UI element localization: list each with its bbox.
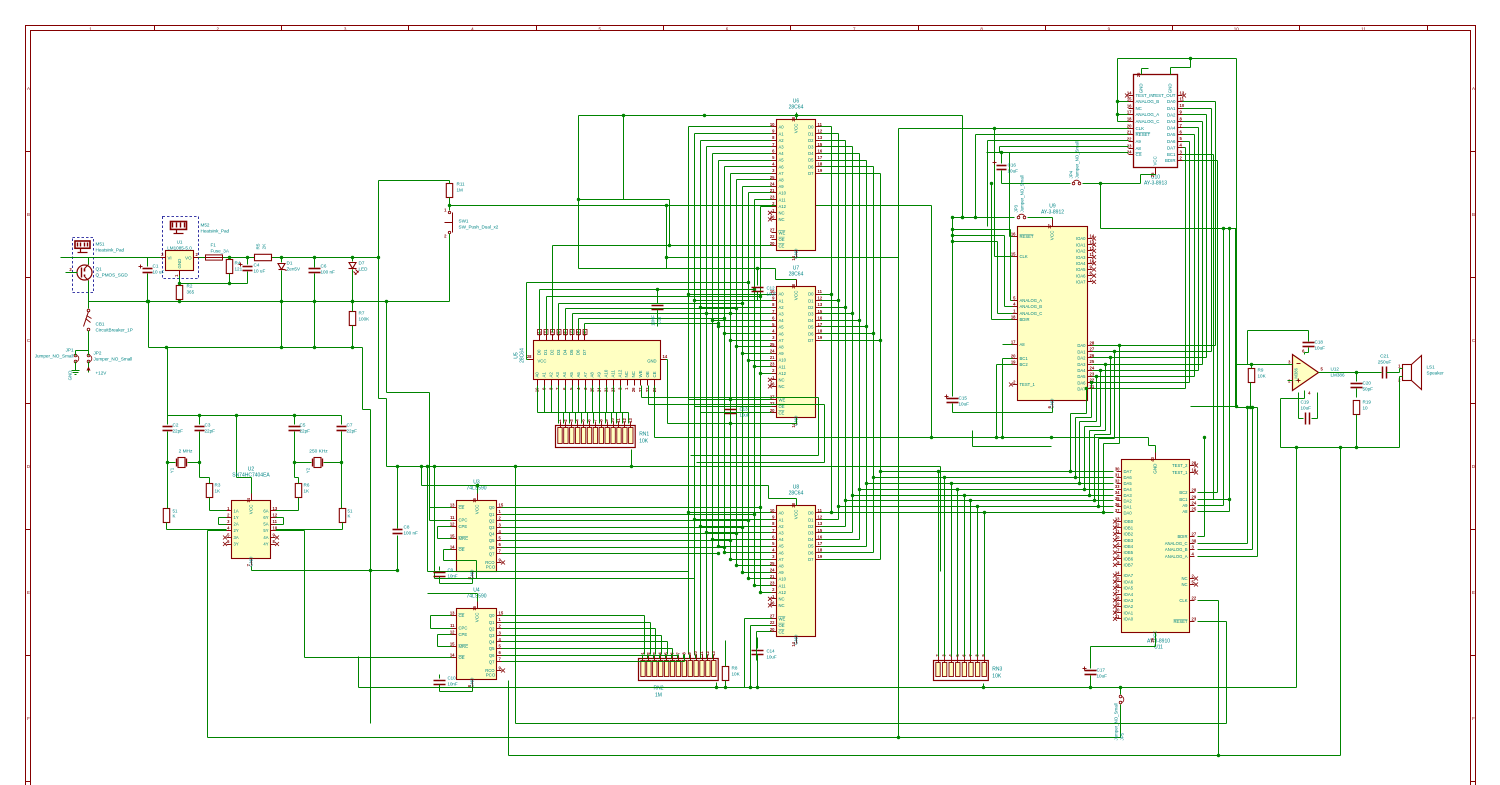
IC U9 AY-3-8912 xyxy=(1009,204,1096,409)
svg-text:C12: C12 xyxy=(767,286,776,291)
svg-text:DA0: DA0 xyxy=(1077,343,1086,348)
svg-text:13: 13 xyxy=(1180,91,1185,96)
svg-text:19: 19 xyxy=(818,554,823,559)
svg-text:24: 24 xyxy=(1090,365,1095,370)
capacitor C21 250uF xyxy=(1378,354,1400,379)
svg-text:A11: A11 xyxy=(610,369,615,377)
svg-text:20: 20 xyxy=(1011,354,1016,359)
wire bottom rails xyxy=(359,687,1297,689)
svg-text:NC: NC xyxy=(1136,106,1142,111)
svg-text:28: 28 xyxy=(1090,341,1095,346)
svg-text:12: 12 xyxy=(543,331,548,336)
wire U11 top from rail xyxy=(1155,446,1157,453)
capacitor C14 10uF xyxy=(752,638,777,690)
svg-text:28C64: 28C64 xyxy=(789,491,804,497)
svg-text:28: 28 xyxy=(1192,488,1197,493)
svg-text:22: 22 xyxy=(1192,596,1197,601)
svg-text:23: 23 xyxy=(1090,372,1095,377)
svg-text:SW_Push_Dual_x2: SW_Push_Dual_x2 xyxy=(459,225,499,230)
svg-text:A2: A2 xyxy=(548,372,553,378)
capacitor C2 22pF xyxy=(163,416,184,458)
svg-text:NC: NC xyxy=(624,371,629,377)
heatsink pad M52 with dashed box xyxy=(163,217,230,279)
svg-text:15: 15 xyxy=(499,503,504,508)
svg-text:CPE: CPE xyxy=(459,524,468,529)
svg-text:D4: D4 xyxy=(808,537,814,542)
svg-text:Q4: Q4 xyxy=(489,532,495,537)
svg-text:23: 23 xyxy=(1192,617,1197,622)
svg-text:13: 13 xyxy=(711,651,716,656)
LED D7 xyxy=(349,256,369,303)
svg-text:VCC: VCC xyxy=(1050,230,1055,240)
svg-text:Q0: Q0 xyxy=(489,613,495,618)
svg-text:B: B xyxy=(27,212,30,217)
svg-text:28: 28 xyxy=(791,116,796,121)
svg-text:F1: F1 xyxy=(211,243,217,248)
svg-text:A11: A11 xyxy=(779,364,787,369)
svg-text:R2: R2 xyxy=(187,284,193,289)
svg-text:IOA0: IOA0 xyxy=(1124,617,1134,622)
svg-text:E: E xyxy=(27,590,30,595)
svg-text:A1: A1 xyxy=(779,298,785,303)
resistor R7 100K xyxy=(349,312,355,326)
svg-text:GND: GND xyxy=(1050,398,1055,409)
svg-text:10nF: 10nF xyxy=(448,682,458,687)
wire U6 vcc stub xyxy=(623,116,625,200)
svg-text:C3: C3 xyxy=(205,423,211,428)
svg-text:13: 13 xyxy=(450,611,455,616)
svg-text:DA2: DA2 xyxy=(1124,499,1133,504)
svg-text:CPE: CPE xyxy=(459,632,468,637)
svg-text:D6: D6 xyxy=(808,164,814,169)
svg-text:Jumper_NO_Small: Jumper_NO_Small xyxy=(94,357,133,362)
svg-text:B: B xyxy=(1472,212,1475,217)
transistor Q1 Q_PMOS_SGD xyxy=(66,259,129,293)
svg-text:11: 11 xyxy=(1090,252,1095,257)
svg-text:ANALOG_B: ANALOG_B xyxy=(1165,547,1188,552)
svg-text:10uF: 10uF xyxy=(767,655,777,660)
svg-text:10uF: 10uF xyxy=(1097,674,1108,679)
svg-text:DA3: DA3 xyxy=(1077,362,1086,367)
svg-text:40: 40 xyxy=(1150,456,1155,461)
svg-text:A9: A9 xyxy=(779,351,785,356)
svg-text:R19: R19 xyxy=(1363,400,1372,405)
svg-text:C9: C9 xyxy=(448,568,454,573)
wire audio ground rail xyxy=(1281,447,1400,449)
wire audio input from U9 analog xyxy=(1236,364,1248,366)
svg-text:IOB6: IOB6 xyxy=(1124,556,1134,561)
svg-text:31: 31 xyxy=(1115,472,1120,477)
svg-text:22pF: 22pF xyxy=(173,429,184,434)
svg-text:GND: GND xyxy=(1168,84,1173,94)
svg-text:LS1: LS1 xyxy=(1427,365,1436,370)
svg-text:10: 10 xyxy=(273,526,278,531)
svg-text:121: 121 xyxy=(235,267,243,272)
svg-text:CS: CS xyxy=(1136,152,1142,157)
svg-text:28C64: 28C64 xyxy=(789,272,804,278)
svg-text:RN1: RN1 xyxy=(639,432,649,438)
svg-text:D7: D7 xyxy=(808,338,814,343)
svg-text:10: 10 xyxy=(1090,258,1095,263)
svg-text:Speaker: Speaker xyxy=(1427,371,1445,376)
svg-text:Q2: Q2 xyxy=(489,518,495,523)
svg-text:D5: D5 xyxy=(808,544,814,549)
capacitor C12 10uF xyxy=(752,267,777,301)
svg-text:A8: A8 xyxy=(590,372,595,378)
svg-text:D5: D5 xyxy=(808,158,814,163)
svg-text:C10: C10 xyxy=(448,676,457,681)
svg-text:13: 13 xyxy=(273,506,278,511)
svg-text:Heatsink_Pad: Heatsink_Pad xyxy=(96,248,125,253)
wire mid rail xyxy=(148,302,150,348)
svg-text:250uF: 250uF xyxy=(1378,360,1392,366)
svg-text:CE: CE xyxy=(779,411,785,416)
svg-text:Q3: Q3 xyxy=(489,525,495,530)
svg-text:12: 12 xyxy=(273,513,278,518)
wire bottom bus horizontals xyxy=(428,571,689,573)
resistor R9 10K xyxy=(1248,369,1254,383)
svg-text:C4: C4 xyxy=(254,263,260,268)
wire RN3 gnd xyxy=(983,684,985,688)
svg-text:D3: D3 xyxy=(556,349,561,355)
svg-text:Q4: Q4 xyxy=(489,640,495,645)
svg-text:DA3: DA3 xyxy=(1124,493,1133,498)
svg-text:15: 15 xyxy=(1011,252,1016,257)
IC U4 74LS590 xyxy=(450,588,505,688)
svg-text:DA4: DA4 xyxy=(1167,126,1176,131)
svg-text:A10: A10 xyxy=(779,358,787,363)
wire U7 WE OE CE lines xyxy=(689,399,772,401)
svg-text:Zen5V: Zen5V xyxy=(287,267,301,272)
svg-text:DA2: DA2 xyxy=(1167,112,1176,117)
svg-text:25: 25 xyxy=(1192,507,1197,512)
svg-text:VCC: VCC xyxy=(538,359,547,364)
wire long horizontals upper-left xyxy=(579,199,670,201)
svg-text:A4: A4 xyxy=(562,372,567,378)
svg-text:A3: A3 xyxy=(779,312,785,317)
svg-text:A4: A4 xyxy=(779,318,785,323)
svg-text:WE: WE xyxy=(638,370,643,377)
svg-text:27: 27 xyxy=(1192,532,1197,537)
svg-text:13: 13 xyxy=(818,521,823,526)
svg-text:DA3: DA3 xyxy=(1167,119,1176,124)
svg-text:DA0: DA0 xyxy=(1167,99,1176,104)
op-amp U12 LM386 xyxy=(1288,349,1345,396)
svg-text:BC2: BC2 xyxy=(1179,490,1188,495)
svg-text:1K: 1K xyxy=(304,489,311,494)
wire U5 bottom address links xyxy=(537,386,539,413)
svg-text:D5: D5 xyxy=(808,325,814,330)
svg-text:A10: A10 xyxy=(604,369,609,377)
svg-text:22pF: 22pF xyxy=(205,429,216,434)
svg-text:A: A xyxy=(27,86,30,91)
svg-text:ANALOG_A: ANALOG_A xyxy=(1136,112,1160,117)
circuit breaker CB1 xyxy=(84,293,133,351)
svg-text:IOB3: IOB3 xyxy=(1124,538,1134,543)
resistor R5 xyxy=(255,254,272,260)
wire U2 vcc xyxy=(251,478,253,494)
wire opamp pin4 gnd xyxy=(1304,391,1306,399)
svg-text:13: 13 xyxy=(450,503,455,508)
svg-text:D3: D3 xyxy=(808,145,814,150)
svg-text:CE: CE xyxy=(459,505,465,510)
svg-text:Q1: Q1 xyxy=(489,512,495,517)
svg-text:D0: D0 xyxy=(808,511,814,516)
svg-text:Q0: Q0 xyxy=(489,505,495,510)
wire U8 WE OE CE lines xyxy=(745,618,772,620)
svg-text:15: 15 xyxy=(1127,97,1132,102)
svg-text:JP2: JP2 xyxy=(94,351,102,356)
svg-text:38: 38 xyxy=(1192,539,1197,544)
wire U2 pin connections xyxy=(219,517,227,519)
svg-text:CPC: CPC xyxy=(459,518,468,523)
svg-text:Y2: Y2 xyxy=(306,467,311,473)
svg-text:OE: OE xyxy=(779,237,785,242)
svg-text:DA5: DA5 xyxy=(1077,374,1086,379)
wire staircase S1 down xyxy=(362,348,364,410)
capacitor C18 10uF xyxy=(1248,331,1326,365)
svg-text:LM386: LM386 xyxy=(1331,373,1345,378)
svg-text:RN2: RN2 xyxy=(653,686,663,692)
svg-text:1A: 1A xyxy=(234,509,239,514)
svg-text:D2: D2 xyxy=(808,138,814,143)
svg-text:A6: A6 xyxy=(779,164,785,169)
svg-text:DA7: DA7 xyxy=(1167,145,1176,150)
svg-text:29: 29 xyxy=(1192,495,1197,500)
svg-text:DA1: DA1 xyxy=(1077,349,1086,354)
svg-text:C19: C19 xyxy=(1301,400,1310,405)
svg-text:Q6: Q6 xyxy=(489,653,495,658)
svg-text:NC: NC xyxy=(779,378,785,383)
svg-text:M51: M51 xyxy=(96,242,105,247)
svg-text:A9: A9 xyxy=(1136,139,1142,144)
wire R11 top loop xyxy=(449,181,451,184)
svg-text:Fuse_3A: Fuse_3A xyxy=(211,249,230,254)
svg-text:28: 28 xyxy=(1192,461,1197,466)
svg-text:JP5: JP5 xyxy=(1120,732,1125,740)
svg-text:19: 19 xyxy=(818,168,823,173)
svg-text:SW1: SW1 xyxy=(459,219,469,224)
svg-text:16: 16 xyxy=(472,605,477,610)
diode D1 ZenSV xyxy=(278,256,301,348)
svg-text:10: 10 xyxy=(1363,406,1369,411)
svg-text:Jumper_NO_Small: Jumper_NO_Small xyxy=(1020,175,1025,212)
IC AY-3-8910 U11 xyxy=(1113,453,1198,651)
resistor R10 51K xyxy=(339,509,345,523)
svg-text:35: 35 xyxy=(1115,496,1120,501)
svg-text:GND: GND xyxy=(249,556,254,567)
svg-text:15: 15 xyxy=(450,534,455,539)
svg-text:IOA1: IOA1 xyxy=(1076,242,1086,247)
svg-text:IOA7: IOA7 xyxy=(1076,280,1086,285)
svg-text:Q6: Q6 xyxy=(489,545,495,550)
svg-text:IOA6: IOA6 xyxy=(1076,273,1086,278)
wire U10 right vertical long loop xyxy=(1236,59,1238,407)
wire U11 reset xyxy=(1198,621,1227,623)
svg-text:13: 13 xyxy=(818,302,823,307)
capacitor C11 10nF xyxy=(651,288,664,327)
svg-text:Q5: Q5 xyxy=(489,538,495,543)
svg-text:Jumper_NO_Small: Jumper_NO_Small xyxy=(35,354,74,359)
svg-text:ANALOG_A: ANALOG_A xyxy=(1020,298,1043,303)
capacitor C15 10uF xyxy=(945,216,970,413)
svg-text:28C64: 28C64 xyxy=(520,348,526,363)
wire R9 node xyxy=(1251,365,1253,369)
svg-text:NC: NC xyxy=(631,371,636,377)
svg-text:12: 12 xyxy=(450,630,455,635)
wire C16 bottom line with JP4 xyxy=(1002,183,1071,185)
svg-text:A4: A4 xyxy=(779,537,785,542)
svg-text:OE: OE xyxy=(459,655,465,660)
svg-text:26: 26 xyxy=(631,387,636,392)
svg-text:D1: D1 xyxy=(543,349,548,355)
svg-text:A8: A8 xyxy=(1020,342,1026,347)
svg-text:30: 30 xyxy=(1115,467,1120,472)
svg-text:PCO: PCO xyxy=(486,565,496,570)
svg-text:14: 14 xyxy=(450,545,455,550)
svg-text:14: 14 xyxy=(663,354,668,359)
svg-text:MRC: MRC xyxy=(459,536,469,541)
svg-text:TEST_2: TEST_2 xyxy=(1172,463,1188,468)
svg-text:A12: A12 xyxy=(779,204,787,209)
svg-text:Heatsink_Pad: Heatsink_Pad xyxy=(201,229,230,234)
capacitor C6 100nF xyxy=(309,256,335,348)
svg-text:11: 11 xyxy=(273,519,278,524)
speaker LS1 xyxy=(1398,356,1444,448)
svg-text:Q2: Q2 xyxy=(489,626,495,631)
svg-text:24: 24 xyxy=(770,181,775,186)
svg-text:10: 10 xyxy=(610,418,615,423)
svg-text:JP3: JP3 xyxy=(1014,204,1019,212)
svg-text:14: 14 xyxy=(450,653,455,658)
svg-text:ANALOG_A: ANALOG_A xyxy=(1165,554,1188,559)
svg-text:C20: C20 xyxy=(1363,381,1372,386)
wire RN1 right common xyxy=(631,450,633,467)
svg-text:C7: C7 xyxy=(347,423,353,428)
svg-text:A6: A6 xyxy=(576,372,581,378)
svg-text:ANALOG_B: ANALOG_B xyxy=(1136,99,1160,104)
svg-text:A2: A2 xyxy=(779,305,785,310)
wire down from R1 bottom node xyxy=(370,571,372,724)
svg-text:16: 16 xyxy=(818,148,823,153)
svg-text:10uF: 10uF xyxy=(1315,346,1326,351)
svg-text:C16: C16 xyxy=(1008,163,1017,168)
svg-text:A7: A7 xyxy=(779,171,785,176)
svg-text:D6: D6 xyxy=(808,331,814,336)
capacitor C7 22pF xyxy=(337,416,358,463)
svg-text:Q1: Q1 xyxy=(96,267,103,272)
svg-text:CE: CE xyxy=(459,613,465,618)
svg-text:33: 33 xyxy=(1115,484,1120,489)
svg-text:OE: OE xyxy=(779,623,785,628)
svg-text:IOA4: IOA4 xyxy=(1076,261,1086,266)
svg-text:1Y: 1Y xyxy=(234,515,239,520)
ground symbol xyxy=(75,367,77,371)
IC U2 SN74HC7404EA xyxy=(223,467,279,567)
svg-text:D4: D4 xyxy=(808,151,814,156)
wire U1 gnd loop xyxy=(180,283,248,285)
wire U11 bdir xyxy=(1198,536,1205,538)
svg-text:VO: VO xyxy=(185,256,192,261)
svg-text:CE: CE xyxy=(779,244,785,249)
svg-text:10uF: 10uF xyxy=(740,413,750,418)
svg-text:A10: A10 xyxy=(779,191,787,196)
svg-text:16: 16 xyxy=(1011,232,1016,237)
wire RN1 links to U5 xyxy=(538,412,559,414)
svg-text:VCC: VCC xyxy=(475,612,480,622)
jumper JP2 Jumper_NO_Small xyxy=(87,351,132,367)
svg-text:18: 18 xyxy=(1011,315,1016,320)
svg-text:WE: WE xyxy=(779,616,786,621)
svg-text:IOA5: IOA5 xyxy=(1076,267,1086,272)
svg-text:17: 17 xyxy=(1127,110,1132,115)
svg-text:11: 11 xyxy=(699,651,704,656)
capacitor C13 10uF xyxy=(725,398,750,425)
svg-text:A11: A11 xyxy=(779,197,787,202)
heatsink pad M51 xyxy=(73,238,125,293)
power +12V xyxy=(87,367,108,376)
svg-text:DA2: DA2 xyxy=(1077,356,1086,361)
svg-text:18: 18 xyxy=(1127,117,1132,122)
svg-text:10uF: 10uF xyxy=(959,402,970,407)
svg-text:A0: A0 xyxy=(535,372,540,378)
svg-text:A10: A10 xyxy=(779,577,787,582)
wire audio rail to bottom xyxy=(1296,448,1298,688)
svg-text:E: E xyxy=(1472,590,1475,595)
jumper JP5 xyxy=(1114,686,1125,741)
svg-text:R7: R7 xyxy=(359,311,365,316)
svg-text:11: 11 xyxy=(450,623,455,628)
fuse F1 xyxy=(206,243,230,261)
wire U5 top data verticals xyxy=(539,290,541,335)
capacitor C4 10uF xyxy=(239,256,266,284)
svg-text:D7: D7 xyxy=(808,171,814,176)
capacitor C20 50pF xyxy=(1351,373,1374,398)
svg-text:A1: A1 xyxy=(779,517,785,522)
svg-text:IOB4: IOB4 xyxy=(1124,544,1134,549)
svg-text:DA1: DA1 xyxy=(1167,106,1176,111)
svg-text:VCC: VCC xyxy=(475,504,480,514)
svg-text:19: 19 xyxy=(1192,468,1197,473)
svg-text:12: 12 xyxy=(818,129,823,134)
wire U4 vcc xyxy=(428,593,478,595)
svg-text:C6: C6 xyxy=(321,264,327,269)
svg-text:2Y: 2Y xyxy=(234,528,239,533)
capacitor C19 10uF xyxy=(1299,393,1318,425)
svg-text:D7: D7 xyxy=(582,349,587,355)
svg-text:32: 32 xyxy=(1115,478,1120,483)
svg-text:D2: D2 xyxy=(808,524,814,529)
svg-text:28C64: 28C64 xyxy=(789,105,804,111)
resistor R6 1K xyxy=(295,484,301,498)
resistor R3 1K xyxy=(206,484,212,498)
svg-text:VCC: VCC xyxy=(794,509,799,519)
svg-text:IOB2: IOB2 xyxy=(1124,532,1134,537)
IC U10 AY-3-8913 xyxy=(1125,69,1186,187)
svg-text:1M: 1M xyxy=(655,693,662,699)
wire U10 DA staircase down to U9 xyxy=(1183,101,1216,103)
svg-text:28: 28 xyxy=(791,502,796,507)
svg-text:D6: D6 xyxy=(576,349,581,355)
svg-text:A8: A8 xyxy=(779,564,785,569)
svg-text:A9: A9 xyxy=(779,570,785,575)
svg-text:Q7: Q7 xyxy=(489,551,495,556)
svg-text:27: 27 xyxy=(638,387,643,392)
svg-text:1M: 1M xyxy=(457,188,464,193)
svg-text:BDIR: BDIR xyxy=(1020,317,1030,322)
svg-text:6Y: 6Y xyxy=(263,515,268,520)
wire U6 GND line xyxy=(667,257,899,259)
